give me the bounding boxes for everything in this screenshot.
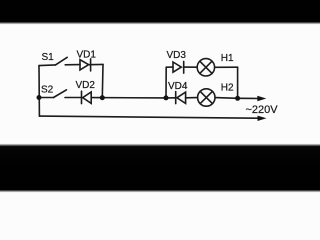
wire VD3 to H1: [184, 66, 198, 68]
node VD1/VD2 junction: [100, 95, 105, 100]
wire to VD4: [166, 97, 176, 99]
wire H2 to right node: [215, 97, 238, 100]
diode VD1: [80, 60, 89, 70]
switch S1: [56, 57, 68, 65]
wire lamp loop left vertical: [165, 67, 167, 98]
wire right vertical of S1 loop: [101, 64, 104, 97]
wire S1 branch left: [39, 64, 56, 67]
node at S2 tap: [37, 95, 42, 100]
lamp H2: [198, 89, 215, 106]
wire VD2 to lamp section: [91, 97, 166, 99]
wire lamp loop right vertical: [237, 67, 239, 98]
wire to VD3: [166, 66, 173, 68]
svg-text:H1: H1: [221, 53, 234, 64]
switch S2: [54, 90, 67, 98]
svg-text:S2: S2: [41, 85, 54, 96]
lamp H1: [197, 59, 214, 76]
wire S1 to VD1: [65, 64, 80, 66]
svg-text:VD1: VD1: [77, 49, 97, 60]
svg-text:VD3: VD3: [167, 50, 187, 61]
arrow lower terminal: [258, 116, 267, 121]
wire H1 to corner: [215, 66, 238, 68]
svg-text:~220V: ~220V: [246, 104, 279, 116]
arrow upper terminal: [257, 96, 266, 101]
wire VD4 to H2: [186, 97, 198, 99]
svg-text:VD4: VD4: [168, 81, 188, 92]
wire bottom line: [39, 116, 258, 118]
diode VD2: [83, 92, 92, 103]
svg-text:S1: S1: [42, 52, 55, 63]
svg-text:H2: H2: [221, 83, 234, 94]
wire S2 to VD2: [65, 97, 82, 99]
svg-text:VD2: VD2: [76, 80, 96, 91]
node lamp section right: [235, 96, 240, 101]
diode VD4: [177, 92, 186, 103]
wire S2 branch left: [39, 97, 54, 99]
wire right node to arrow: [238, 97, 259, 99]
wire left vertical: [38, 66, 40, 117]
diode VD3: [173, 62, 181, 72]
wire VD1 to corner: [89, 63, 103, 65]
node lamp section left: [164, 95, 169, 100]
